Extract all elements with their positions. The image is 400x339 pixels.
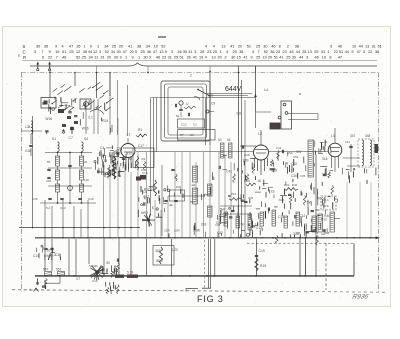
svg-text:C12: C12 <box>299 214 305 218</box>
svg-text:47: 47 <box>153 50 157 54</box>
svg-text:318: 318 <box>201 222 207 226</box>
svg-text:46: 46 <box>156 56 160 60</box>
svg-text:16: 16 <box>257 179 261 183</box>
svg-text:348: 348 <box>365 134 371 138</box>
svg-text:C7: C7 <box>76 277 80 281</box>
svg-text:31: 31 <box>371 45 375 49</box>
svg-text:552: 552 <box>56 268 62 272</box>
svg-text:R21: R21 <box>284 183 290 187</box>
svg-text:41: 41 <box>230 45 234 49</box>
svg-text:28: 28 <box>302 50 306 54</box>
svg-text:16: 16 <box>271 189 275 193</box>
svg-text:R40: R40 <box>324 214 330 218</box>
svg-text:4: 4 <box>252 50 254 54</box>
svg-text:34: 34 <box>104 45 108 49</box>
svg-text:50: 50 <box>218 138 222 142</box>
svg-text:4: 4 <box>61 45 63 49</box>
svg-text:C6: C6 <box>143 190 147 194</box>
svg-text:1: 1 <box>327 50 329 54</box>
svg-text:51: 51 <box>62 50 66 54</box>
svg-text:C35: C35 <box>55 253 61 257</box>
svg-text:46: 46 <box>62 56 66 60</box>
svg-text:41: 41 <box>128 45 132 49</box>
svg-text:C38: C38 <box>215 223 221 227</box>
svg-text:C12: C12 <box>181 123 187 127</box>
svg-text:46: 46 <box>271 45 275 49</box>
svg-text:L38: L38 <box>25 125 31 129</box>
svg-text:C26: C26 <box>244 153 250 157</box>
svg-text:C5R: C5R <box>174 229 180 233</box>
svg-text:52: 52 <box>105 50 109 54</box>
svg-text:SM3PL: SM3PL <box>89 264 99 268</box>
svg-text:30: 30 <box>231 56 235 60</box>
svg-text:20: 20 <box>268 56 272 60</box>
svg-text:7: 7 <box>41 50 43 54</box>
svg-text:13: 13 <box>365 45 369 49</box>
svg-text:50: 50 <box>106 261 110 265</box>
svg-text:1: 1 <box>97 45 99 49</box>
svg-text:44: 44 <box>296 50 300 54</box>
svg-text:10: 10 <box>154 45 158 49</box>
svg-text:C11: C11 <box>276 146 282 150</box>
svg-text:34: 34 <box>89 56 93 60</box>
svg-text:547: 547 <box>43 268 49 272</box>
svg-text:318: 318 <box>322 157 328 161</box>
svg-text:12: 12 <box>76 50 80 54</box>
svg-text:52: 52 <box>161 45 165 49</box>
svg-text:44: 44 <box>345 50 349 54</box>
svg-text:36: 36 <box>44 45 48 49</box>
svg-text:W16: W16 <box>156 259 163 263</box>
svg-text:L3: L3 <box>331 134 335 138</box>
svg-text:W16: W16 <box>317 196 324 200</box>
svg-text:20: 20 <box>119 45 123 49</box>
svg-text:316: 316 <box>155 249 161 253</box>
svg-text:C35: C35 <box>291 162 297 166</box>
svg-text:25: 25 <box>256 56 260 60</box>
svg-text:51: 51 <box>339 50 343 54</box>
svg-text:3: 3 <box>363 50 365 54</box>
svg-text:C20: C20 <box>248 196 254 200</box>
svg-text:Af-4: Af-4 <box>323 198 329 202</box>
svg-text:44: 44 <box>359 45 363 49</box>
svg-text:R3: R3 <box>142 157 146 161</box>
svg-text:20: 20 <box>218 56 222 60</box>
svg-text:30: 30 <box>263 45 267 49</box>
svg-text:115: 115 <box>84 178 89 182</box>
svg-text:12: 12 <box>93 50 97 54</box>
svg-text:5: 5 <box>42 56 44 60</box>
svg-text:30: 30 <box>117 50 121 54</box>
svg-text:C1: C1 <box>193 123 197 127</box>
svg-text:10: 10 <box>352 45 356 49</box>
svg-text:C42: C42 <box>217 231 223 235</box>
svg-text:R40: R40 <box>292 183 298 187</box>
svg-text:31: 31 <box>100 56 104 60</box>
svg-text:31: 31 <box>168 56 172 60</box>
svg-text:5a: 5a <box>176 114 180 118</box>
svg-text:1: 1 <box>125 56 127 60</box>
svg-text:R1: R1 <box>138 128 142 132</box>
svg-text:23: 23 <box>162 56 166 60</box>
svg-text:44: 44 <box>299 56 303 60</box>
svg-text:52: 52 <box>264 50 268 54</box>
svg-text:C50: C50 <box>287 151 293 155</box>
svg-text:318: 318 <box>272 168 278 172</box>
svg-text:S: S <box>23 44 26 49</box>
svg-text:20: 20 <box>114 56 118 60</box>
svg-text:C18: C18 <box>88 197 94 201</box>
svg-text:20: 20 <box>107 56 111 60</box>
svg-text:1,23: 1,23 <box>172 248 178 252</box>
svg-text:1: 1 <box>138 56 140 60</box>
svg-text:4: 4 <box>205 45 207 49</box>
svg-text:7: 7 <box>258 50 260 54</box>
svg-text:30: 30 <box>183 50 187 54</box>
svg-text:41: 41 <box>243 56 247 60</box>
svg-text:9: 9 <box>250 56 252 60</box>
svg-text:C12: C12 <box>256 226 262 230</box>
svg-text:46: 46 <box>289 50 293 54</box>
svg-text:C48: C48 <box>25 149 31 153</box>
svg-text:8: 8 <box>279 45 281 49</box>
svg-text:C35: C35 <box>278 215 284 219</box>
svg-text:2: 2 <box>287 45 289 49</box>
svg-text:19: 19 <box>322 56 326 60</box>
svg-text:C: C <box>23 50 26 55</box>
svg-text:9: 9 <box>120 56 122 60</box>
svg-text:2: 2 <box>190 74 192 78</box>
svg-text:28: 28 <box>200 50 204 54</box>
svg-text:9: 9 <box>131 56 133 60</box>
svg-text:13: 13 <box>221 45 225 49</box>
svg-text:4: 4 <box>29 288 31 292</box>
svg-text:19: 19 <box>199 56 203 60</box>
svg-text:51: 51 <box>321 50 325 54</box>
svg-text:C2: C2 <box>190 133 194 137</box>
svg-text:347: 347 <box>350 134 356 138</box>
svg-text:C9: C9 <box>211 102 215 106</box>
svg-text:3: 3 <box>149 56 151 60</box>
svg-text:7: 7 <box>56 56 58 60</box>
svg-text:3: 3 <box>194 50 196 54</box>
svg-text:C45: C45 <box>141 168 147 172</box>
svg-text:22: 22 <box>368 50 372 54</box>
svg-text:C15: C15 <box>92 279 98 283</box>
svg-text:47: 47 <box>123 50 127 54</box>
svg-text:46: 46 <box>315 56 319 60</box>
svg-text:38: 38 <box>137 45 141 49</box>
svg-text:22: 22 <box>334 50 338 54</box>
svg-text:25: 25 <box>286 56 290 60</box>
svg-text:32B: 32B <box>101 159 108 163</box>
svg-text:46: 46 <box>178 50 182 54</box>
svg-text:C51: C51 <box>293 155 299 159</box>
svg-text:51: 51 <box>274 56 278 60</box>
svg-text:C17: C17 <box>138 144 144 148</box>
svg-text:FIG 3: FIG 3 <box>197 294 224 304</box>
svg-text:25: 25 <box>233 50 237 54</box>
svg-text:34: 34 <box>84 160 88 164</box>
svg-text:W16: W16 <box>45 117 52 121</box>
svg-text:C14: C14 <box>33 254 39 258</box>
svg-text:3: 3 <box>330 45 332 49</box>
svg-text:41: 41 <box>279 56 283 60</box>
svg-text:R7: R7 <box>180 133 184 137</box>
svg-text:MR3: MR3 <box>141 211 148 215</box>
svg-text:13: 13 <box>159 50 163 54</box>
svg-text:20: 20 <box>130 50 134 54</box>
svg-text:16: 16 <box>315 231 319 235</box>
svg-text:23: 23 <box>207 50 211 54</box>
svg-text:32B: 32B <box>324 231 329 235</box>
svg-text:C35: C35 <box>300 174 306 178</box>
svg-text:4: 4 <box>205 56 207 60</box>
svg-text:C8: C8 <box>209 94 213 98</box>
svg-text:5W: 5W <box>195 228 201 232</box>
svg-text:9: 9 <box>49 50 51 54</box>
svg-text:47: 47 <box>69 45 73 49</box>
svg-text:38: 38 <box>295 45 299 49</box>
svg-text:418: 418 <box>46 179 51 183</box>
svg-text:3: 3 <box>99 50 101 54</box>
svg-text:C5R: C5R <box>164 229 170 233</box>
svg-text:C10: C10 <box>345 140 351 144</box>
svg-text:38: 38 <box>375 50 379 54</box>
svg-text:26: 26 <box>187 56 191 60</box>
svg-text:0,1: 0,1 <box>88 115 93 119</box>
svg-text:R: R <box>23 55 26 60</box>
svg-text:55: 55 <box>47 160 51 164</box>
svg-text:13: 13 <box>211 56 215 60</box>
svg-text:L2: L2 <box>258 132 262 136</box>
svg-text:23: 23 <box>276 50 280 54</box>
svg-text:3: 3 <box>306 56 308 60</box>
svg-text:32B: 32B <box>293 232 300 236</box>
svg-text:25: 25 <box>213 50 217 54</box>
svg-text:5,19: 5,19 <box>127 271 133 275</box>
svg-text:C4: C4 <box>100 146 104 150</box>
svg-text:25: 25 <box>69 50 73 54</box>
svg-text:25: 25 <box>82 56 86 60</box>
svg-text:4: 4 <box>226 50 228 54</box>
svg-text:L4: L4 <box>264 88 268 92</box>
svg-text:3: 3 <box>171 50 173 54</box>
svg-text:C7: C7 <box>69 136 73 140</box>
svg-text:34: 34 <box>111 50 115 54</box>
svg-text:51: 51 <box>378 45 382 49</box>
svg-text:C19: C19 <box>259 249 265 253</box>
svg-text:51: 51 <box>247 45 251 49</box>
svg-text:C41: C41 <box>226 170 232 174</box>
svg-text:25: 25 <box>112 45 116 49</box>
svg-text:C45: C45 <box>32 197 38 201</box>
svg-text:31: 31 <box>188 50 192 54</box>
svg-text:R24: R24 <box>102 119 108 123</box>
svg-text:9: 9 <box>351 50 353 54</box>
svg-text:9: 9 <box>90 45 92 49</box>
svg-text:13: 13 <box>308 50 312 54</box>
svg-text:30: 30 <box>292 56 296 60</box>
svg-text:15: 15 <box>55 50 59 54</box>
svg-text:W16: W16 <box>82 126 89 130</box>
svg-text:36: 36 <box>270 50 274 54</box>
svg-text:5W: 5W <box>296 150 302 154</box>
svg-text:2: 2 <box>225 56 227 60</box>
svg-text:32B: 32B <box>243 159 250 163</box>
svg-text:S4: S4 <box>84 137 88 141</box>
svg-text:R10: R10 <box>231 192 237 196</box>
svg-text:20: 20 <box>238 45 242 49</box>
svg-text:50: 50 <box>241 222 245 226</box>
svg-text:5: 5 <box>165 50 167 54</box>
svg-text:54: 54 <box>227 138 231 142</box>
svg-text:25: 25 <box>174 56 178 60</box>
svg-text:26: 26 <box>76 45 80 49</box>
svg-text:1: 1 <box>220 50 222 54</box>
svg-text:3: 3 <box>34 50 36 54</box>
svg-text:47: 47 <box>338 56 342 60</box>
svg-text:30: 30 <box>36 45 40 49</box>
svg-text:38: 38 <box>83 50 87 54</box>
svg-text:38: 38 <box>239 50 243 54</box>
svg-text:C36: C36 <box>291 174 297 178</box>
svg-text:50: 50 <box>47 248 51 252</box>
svg-text:34: 34 <box>146 45 150 49</box>
svg-text:1: 1 <box>83 45 85 49</box>
svg-text:S1: S1 <box>52 137 56 141</box>
svg-text:36: 36 <box>147 50 151 54</box>
svg-text:5,2: 5,2 <box>46 206 51 210</box>
svg-text:25: 25 <box>141 50 145 54</box>
svg-text:51: 51 <box>179 56 183 60</box>
svg-text:318: 318 <box>322 172 328 176</box>
svg-text:R40: R40 <box>176 185 182 189</box>
svg-text:R25: R25 <box>244 179 250 183</box>
svg-text:46: 46 <box>338 45 342 49</box>
svg-text:25: 25 <box>314 50 318 54</box>
svg-text:11: 11 <box>94 56 98 60</box>
svg-text:44: 44 <box>88 50 92 54</box>
svg-text:644V: 644V <box>225 86 242 93</box>
svg-text:22: 22 <box>48 56 52 60</box>
svg-text:47: 47 <box>357 50 361 54</box>
svg-text:25: 25 <box>256 45 260 49</box>
svg-text:5: 5 <box>135 50 137 54</box>
svg-text:52: 52 <box>76 56 80 60</box>
svg-text:8: 8 <box>329 56 331 60</box>
svg-text:L1: L1 <box>127 133 131 137</box>
svg-text:41: 41 <box>193 56 197 60</box>
svg-text:15: 15 <box>237 56 241 60</box>
svg-text:9: 9 <box>55 45 57 49</box>
svg-text:16: 16 <box>306 231 310 235</box>
svg-text:R936: R936 <box>351 294 369 301</box>
svg-text:4: 4 <box>213 45 215 49</box>
svg-text:C12: C12 <box>143 195 149 199</box>
svg-text:30: 30 <box>143 56 147 60</box>
svg-text:R15: R15 <box>260 264 266 268</box>
